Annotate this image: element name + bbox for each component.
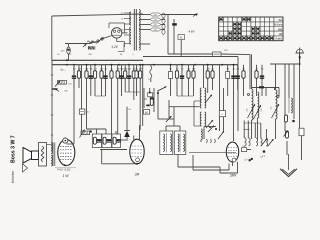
- svg-text:Kelchler: Kelchler: [11, 170, 15, 183]
- svg-text:2M: 2M: [134, 173, 140, 177]
- svg-text:Wü: Wü: [279, 19, 283, 22]
- svg-text:1 W: 1 W: [63, 174, 70, 178]
- svg-text:CW: CW: [128, 109, 131, 111]
- svg-text:1M: 1M: [100, 68, 103, 70]
- svg-text:1M: 1M: [139, 68, 142, 70]
- svg-text:1M: 1M: [78, 68, 81, 70]
- svg-text:110: 110: [121, 19, 124, 21]
- svg-text:1,2V: 1,2V: [111, 45, 118, 49]
- svg-text:μF ?: μF ?: [261, 157, 266, 159]
- svg-text:LW: LW: [279, 33, 283, 36]
- svg-text:220: 220: [121, 13, 124, 15]
- svg-text:Auslä.: Auslä.: [275, 38, 282, 41]
- svg-text:2kW: 2kW: [229, 174, 237, 178]
- svg-text:P=10 +0.232: P=10 +0.232: [57, 169, 71, 171]
- svg-text:Ua→: Ua→: [60, 68, 66, 72]
- svg-text:Ω: Ω: [145, 112, 147, 115]
- svg-text:MW: MW: [278, 28, 283, 31]
- svg-text:1M: 1M: [192, 68, 195, 70]
- svg-text:Boss 3 W 7: Boss 3 W 7: [11, 135, 17, 163]
- svg-text:1M: 1M: [206, 68, 209, 70]
- svg-text:W.Kurw: W.Kurw: [274, 24, 283, 27]
- svg-text:1M: 1M: [85, 68, 88, 70]
